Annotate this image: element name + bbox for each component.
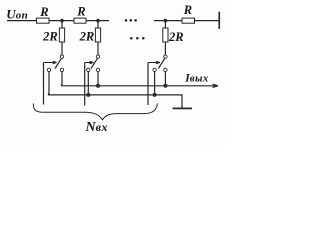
svg-text:R: R <box>183 3 192 17</box>
resistor 2R-1 <box>59 28 64 42</box>
svg-text:Uоп: Uоп <box>6 6 28 21</box>
svg-text:R: R <box>76 5 85 19</box>
svg-text:R: R <box>39 5 48 19</box>
switch S1 pole contact <box>60 55 63 58</box>
switch S3 left throw contact <box>153 68 156 71</box>
wire rail input segment <box>7 20 37 22</box>
wire S2 left throw to ground bus <box>87 72 89 95</box>
ground terminator bar top right <box>218 12 220 29</box>
wire resistor 2R-3 to switch S3 <box>164 42 166 55</box>
switch S1 blade <box>55 58 61 68</box>
wire S2 right throw to output bus <box>97 72 99 86</box>
switch S2 control arrow <box>85 61 94 64</box>
switch S3 blade <box>158 58 164 68</box>
switch S3 pole contact <box>164 55 167 58</box>
switch S1 left throw contact <box>47 68 50 71</box>
node B junction dot <box>96 19 100 23</box>
switch S2 right throw contact <box>96 68 99 71</box>
wire resistor 2R-2 to switch S2 <box>97 42 99 55</box>
switch S2 left throw contact <box>87 68 90 71</box>
wire S3 right throw to output bus <box>164 72 166 86</box>
node C junction dot <box>164 19 168 23</box>
wire S3 left throw to ground bus <box>154 72 156 95</box>
wire node A to resistor 2R-1 <box>61 21 63 28</box>
output bus wire with arrow Iout <box>61 84 218 87</box>
wire node B to resistor 2R-2 <box>97 21 99 28</box>
switch S2 blade <box>91 58 97 68</box>
ellipsis dots rail continuation <box>125 19 137 22</box>
svg-text:2R: 2R <box>168 30 184 44</box>
wire S1 right throw to output bus <box>61 72 63 86</box>
svg-text:2R: 2R <box>42 30 58 44</box>
wire rail segment node A <box>49 20 74 22</box>
junction dot S3 ground bus <box>153 93 157 97</box>
wire resistor 2R-1 to switch S1 <box>61 42 63 55</box>
brace Nin input bus <box>33 104 157 120</box>
switch S1 control line <box>43 63 45 105</box>
svg-text:Nвх: Nвх <box>85 120 109 135</box>
resistor R2 <box>74 18 86 23</box>
switch S1 control arrow <box>44 61 57 64</box>
wire rail segment node C <box>154 20 182 22</box>
wire node C to resistor 2R-3 <box>164 21 166 28</box>
switch S2 control line <box>84 63 86 106</box>
junction dot S2 ground bus <box>86 93 90 97</box>
switch S2 pole contact <box>96 55 99 58</box>
resistor 2R-2 <box>95 28 100 42</box>
wire S1 right corner <box>60 84 62 86</box>
wire rail segment node B <box>86 20 109 22</box>
ellipsis dots 2R row continuation <box>130 37 145 40</box>
ground symbol bar <box>173 108 193 110</box>
junction dot S2 output bus <box>96 84 100 88</box>
svg-text:Iвых: Iвых <box>184 72 209 84</box>
resistor 2R-3 <box>163 28 168 42</box>
switch S3 control line <box>147 63 149 106</box>
wire rail to terminator <box>195 20 219 22</box>
wire S1 left throw to ground bus <box>48 72 50 95</box>
switch S3 right throw contact <box>164 68 167 71</box>
switch S3 control arrow <box>148 61 160 64</box>
junction dot S3 output bus <box>163 84 167 88</box>
ground bus wire <box>48 93 182 108</box>
resistor R3 (termination) <box>182 18 195 23</box>
switch S1 right throw contact <box>60 68 63 71</box>
node A junction dot <box>60 19 64 23</box>
resistor R1 <box>37 18 50 23</box>
svg-text:2R: 2R <box>79 30 95 44</box>
